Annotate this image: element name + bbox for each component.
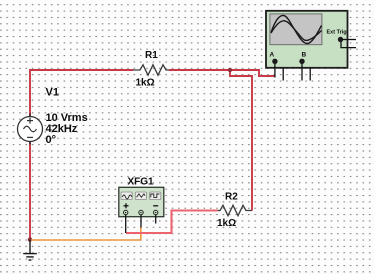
svg-text:V1: V1 — [46, 87, 59, 99]
svg-text:XFG1: XFG1 — [128, 177, 155, 188]
svg-text:1kΩ: 1kΩ — [217, 218, 236, 229]
oscilloscope XSC — [266, 11, 356, 81]
wire: junction down and across to R2 right lead — [230, 70, 252, 211]
wire: R1 right to oscilloscope channel A — [169, 70, 275, 76]
svg-text:1kΩ: 1kΩ — [136, 77, 155, 88]
svg-text:R1: R1 — [145, 50, 158, 61]
wire: V1 negative terminal down to ground — [29, 142, 31, 240]
svg-text:0°: 0° — [46, 134, 57, 146]
wire: orange XFG1 common terminal to ground net — [31, 228, 141, 241]
svg-text:R2: R2 — [225, 192, 238, 203]
junction: ground net node — [28, 237, 32, 241]
svg-text:Ext Trig: Ext Trig — [327, 30, 347, 36]
ground — [23, 240, 37, 260]
resistor R1 — [133, 65, 169, 75]
svg-text:B: B — [302, 52, 307, 59]
function generator XFG1 — [119, 187, 164, 233]
wire: V1 positive terminal up and across to R1 left — [30, 70, 133, 117]
voltage source V1 — [18, 114, 43, 145]
svg-text:A: A — [270, 52, 275, 59]
resistor R2 — [218, 205, 253, 215]
junction: node at R1 output net — [228, 68, 232, 72]
wire: pink XFG1 plus terminal to R2 left lead — [126, 211, 218, 234]
